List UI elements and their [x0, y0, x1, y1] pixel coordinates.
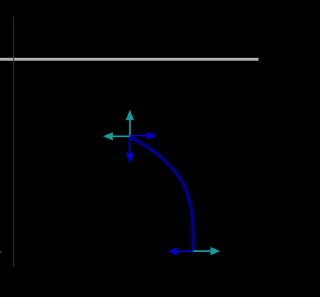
top cross: down arrow (blue)	[126, 136, 134, 163]
vertical line crossing notch on gray line	[13, 58, 14, 61]
bottom cross: left arrow (blue)	[168, 247, 193, 255]
vertical axis line	[13, 17, 14, 268]
tick mark at left edge	[0, 251, 2, 254]
trajectory curve	[130, 137, 194, 252]
bottom cross: right arrow (teal)	[193, 247, 220, 255]
top cross: left arrow (teal)	[103, 132, 130, 140]
top cross: up arrow (teal)	[126, 110, 134, 137]
horizontal gray surface line	[0, 58, 259, 61]
top cross: right arrow (blue)	[130, 132, 157, 140]
